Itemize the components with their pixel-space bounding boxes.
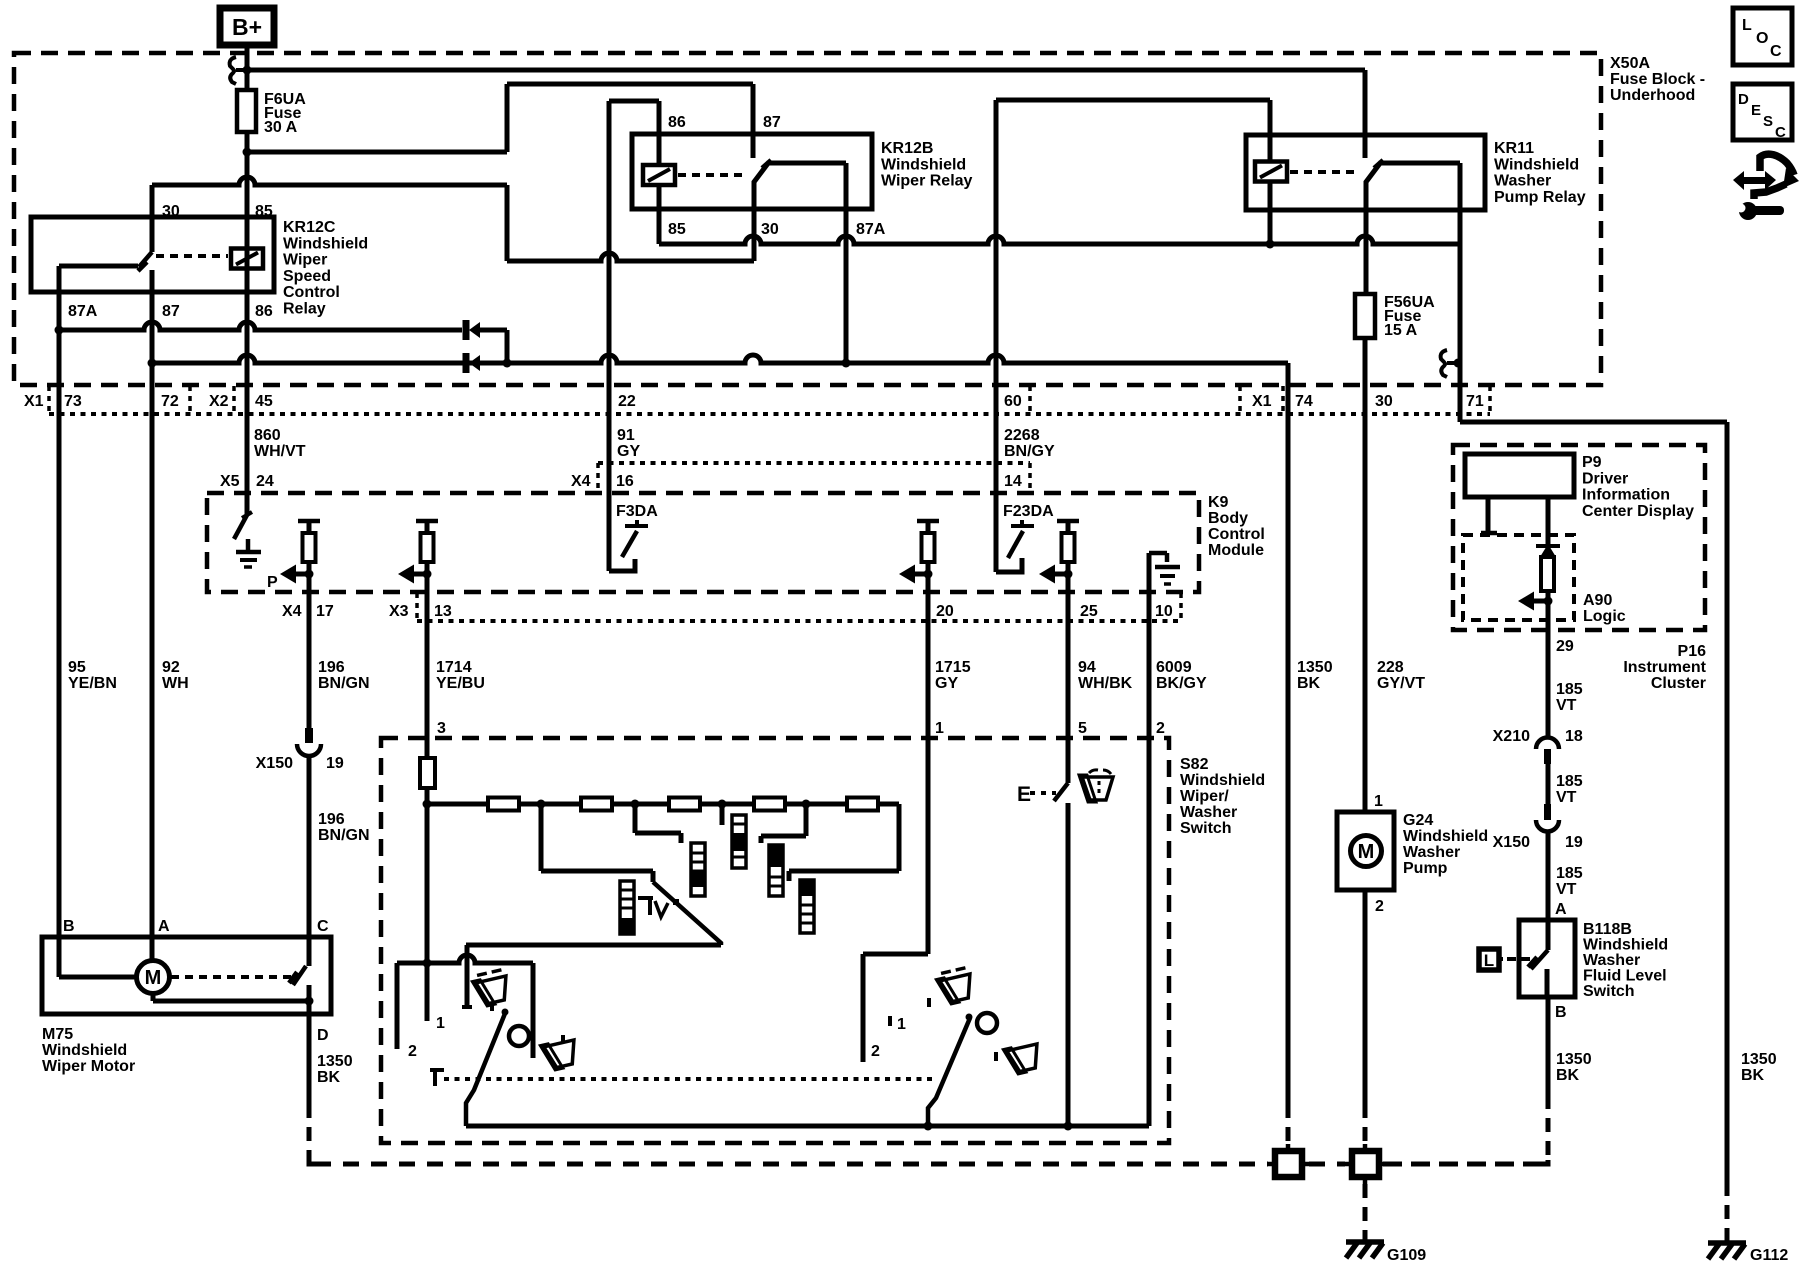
svg-text:F3DA: F3DA [616, 503, 658, 520]
svg-text:13: 13 [434, 603, 452, 620]
svg-text:BN/GN: BN/GN [318, 827, 370, 844]
svg-text:19: 19 [1565, 834, 1583, 851]
svg-text:M: M [1358, 841, 1375, 863]
svg-text:1: 1 [1374, 793, 1383, 810]
svg-text:60: 60 [1004, 393, 1022, 410]
svg-text:O: O [1756, 30, 1768, 47]
svg-text:10: 10 [1155, 603, 1173, 620]
svg-text:B118B: B118B [1583, 921, 1632, 938]
svg-text:94: 94 [1078, 659, 1096, 676]
svg-text:196: 196 [318, 811, 345, 828]
svg-text:87: 87 [162, 303, 180, 320]
svg-text:1: 1 [897, 1016, 906, 1033]
svg-text:2268: 2268 [1004, 427, 1040, 444]
svg-text:VT: VT [1556, 697, 1577, 714]
svg-text:25: 25 [1080, 603, 1098, 620]
svg-text:Windshield: Windshield [1583, 937, 1668, 954]
svg-text:1714: 1714 [436, 659, 472, 676]
svg-text:Windshield: Windshield [1494, 156, 1579, 173]
svg-text:30: 30 [1375, 393, 1393, 410]
svg-text:C: C [1770, 43, 1782, 60]
svg-text:Fuse Block -: Fuse Block - [1610, 71, 1705, 88]
svg-text:A: A [158, 918, 170, 935]
svg-text:BK/GY: BK/GY [1156, 675, 1207, 692]
svg-text:G109: G109 [1387, 1247, 1426, 1264]
svg-text:14: 14 [1004, 473, 1022, 490]
svg-text:Control: Control [1208, 526, 1265, 543]
svg-text:Pump Relay: Pump Relay [1494, 189, 1586, 206]
svg-text:Washer: Washer [1180, 804, 1237, 821]
svg-text:X50A: X50A [1610, 55, 1650, 72]
svg-text:1350: 1350 [1556, 1051, 1592, 1068]
svg-text:Cluster: Cluster [1651, 675, 1706, 692]
svg-text:1350: 1350 [1741, 1051, 1777, 1068]
svg-text:72: 72 [161, 393, 179, 410]
svg-text:F23DA: F23DA [1003, 503, 1054, 520]
svg-text:C: C [1775, 124, 1786, 141]
svg-text:M: M [145, 967, 162, 989]
svg-text:VT: VT [1556, 881, 1577, 898]
svg-text:5: 5 [1078, 720, 1087, 737]
svg-text:G112: G112 [1750, 1247, 1788, 1264]
svg-text:185: 185 [1556, 681, 1583, 698]
svg-text:D: D [317, 1027, 329, 1044]
svg-text:KR11: KR11 [1494, 140, 1534, 157]
svg-text:K9: K9 [1208, 494, 1229, 511]
svg-text:30: 30 [761, 221, 779, 238]
svg-text:Windshield: Windshield [1403, 828, 1488, 845]
svg-text:D: D [1738, 91, 1749, 108]
svg-text:16: 16 [616, 473, 634, 490]
svg-text:Relay: Relay [283, 301, 326, 318]
svg-text:20: 20 [936, 603, 954, 620]
svg-text:860: 860 [254, 427, 281, 444]
svg-text:71: 71 [1466, 393, 1484, 410]
svg-text:185: 185 [1556, 865, 1583, 882]
svg-text:1: 1 [436, 1015, 445, 1032]
svg-text:X150: X150 [1493, 834, 1530, 851]
svg-text:G24: G24 [1403, 812, 1433, 829]
svg-text:GY/VT: GY/VT [1377, 675, 1425, 692]
svg-text:BK: BK [1556, 1067, 1580, 1084]
svg-text:P: P [267, 574, 278, 591]
svg-text:2: 2 [871, 1043, 880, 1060]
svg-text:Logic: Logic [1583, 608, 1626, 625]
svg-text:85: 85 [255, 203, 273, 220]
svg-text:228: 228 [1377, 659, 1404, 676]
svg-text:Washer: Washer [1494, 173, 1551, 190]
svg-text:Driver: Driver [1582, 470, 1628, 487]
svg-text:29: 29 [1556, 638, 1574, 655]
svg-text:Speed: Speed [283, 268, 331, 285]
svg-text:30 A: 30 A [264, 119, 298, 136]
svg-text:2: 2 [1375, 898, 1384, 915]
svg-text:GY: GY [935, 675, 958, 692]
svg-text:X4: X4 [282, 603, 302, 620]
svg-text:X3: X3 [389, 603, 409, 620]
svg-text:BK: BK [317, 1069, 341, 1086]
svg-text:Pump: Pump [1403, 860, 1448, 877]
svg-text:22: 22 [618, 393, 636, 410]
svg-text:95: 95 [68, 659, 86, 676]
svg-text:BN/GY: BN/GY [1004, 443, 1055, 460]
svg-text:87A: 87A [68, 303, 98, 320]
svg-text:15 A: 15 A [1384, 322, 1418, 339]
svg-text:19: 19 [326, 755, 344, 772]
svg-text:Instrument: Instrument [1623, 659, 1706, 676]
svg-text:X1: X1 [24, 393, 44, 410]
svg-text:Switch: Switch [1583, 983, 1635, 1000]
svg-text:91: 91 [617, 427, 635, 444]
svg-text:18: 18 [1565, 728, 1583, 745]
svg-text:YE/BU: YE/BU [436, 675, 485, 692]
svg-text:GY: GY [617, 443, 640, 460]
svg-text:BN/GN: BN/GN [318, 675, 370, 692]
svg-text:L: L [1484, 951, 1494, 970]
svg-text:BK: BK [1297, 675, 1321, 692]
svg-text:17: 17 [316, 603, 334, 620]
svg-text:B: B [1555, 1004, 1567, 1021]
svg-text:86: 86 [255, 303, 273, 320]
svg-text:E: E [1017, 783, 1031, 806]
svg-text:C: C [317, 918, 329, 935]
svg-text:KR12B: KR12B [881, 140, 933, 157]
svg-text:Body: Body [1208, 510, 1248, 527]
svg-text:185: 185 [1556, 773, 1583, 790]
svg-text:KR12C: KR12C [283, 219, 336, 236]
svg-text:A: A [1555, 901, 1567, 918]
svg-text:1350: 1350 [1297, 659, 1333, 676]
svg-text:P9: P9 [1582, 454, 1602, 471]
svg-text:B+: B+ [232, 14, 262, 40]
svg-text:6009: 6009 [1156, 659, 1192, 676]
svg-text:L: L [1742, 17, 1752, 34]
svg-text:Center Display: Center Display [1582, 503, 1694, 520]
svg-text:X1: X1 [1252, 393, 1272, 410]
svg-text:WH: WH [162, 675, 189, 692]
svg-text:1715: 1715 [935, 659, 971, 676]
svg-text:45: 45 [255, 393, 273, 410]
svg-text:M75: M75 [42, 1026, 73, 1043]
svg-text:Wiper: Wiper [283, 252, 327, 269]
svg-text:B: B [63, 918, 75, 935]
svg-text:Underhood: Underhood [1610, 87, 1695, 104]
svg-text:85: 85 [668, 221, 686, 238]
svg-text:Wiper Relay: Wiper Relay [881, 173, 973, 190]
svg-text:WH/BK: WH/BK [1078, 675, 1133, 692]
svg-text:BK: BK [1741, 1067, 1765, 1084]
svg-text:2: 2 [408, 1043, 417, 1060]
svg-text:3: 3 [437, 720, 446, 737]
svg-text:Windshield: Windshield [881, 156, 966, 173]
svg-text:S82: S82 [1180, 756, 1209, 773]
svg-text:WH/VT: WH/VT [254, 443, 306, 460]
svg-text:X210: X210 [1493, 728, 1530, 745]
svg-text:Module: Module [1208, 542, 1264, 559]
svg-text:Fluid Level: Fluid Level [1583, 968, 1667, 985]
svg-text:P16: P16 [1678, 643, 1707, 660]
svg-text:E: E [1751, 102, 1761, 119]
svg-text:30: 30 [162, 203, 180, 220]
svg-text:X4: X4 [571, 473, 591, 490]
svg-text:X5: X5 [220, 473, 240, 490]
svg-text:Wiper/: Wiper/ [1180, 788, 1229, 805]
svg-text:Windshield: Windshield [42, 1042, 127, 1059]
svg-text:Washer: Washer [1583, 952, 1640, 969]
svg-text:A90: A90 [1583, 592, 1612, 609]
svg-text:Information: Information [1582, 487, 1670, 504]
svg-text:86: 86 [668, 114, 686, 131]
svg-text:92: 92 [162, 659, 180, 676]
svg-text:YE/BN: YE/BN [68, 675, 117, 692]
svg-text:196: 196 [318, 659, 345, 676]
svg-text:87A: 87A [856, 221, 886, 238]
svg-text:74: 74 [1295, 393, 1313, 410]
svg-text:Wiper Motor: Wiper Motor [42, 1058, 135, 1075]
svg-text:Washer: Washer [1403, 844, 1460, 861]
svg-text:1: 1 [935, 720, 944, 737]
svg-text:87: 87 [763, 114, 781, 131]
svg-text:1350: 1350 [317, 1053, 353, 1070]
svg-text:73: 73 [64, 393, 82, 410]
svg-text:VT: VT [1556, 789, 1577, 806]
svg-text:X150: X150 [256, 755, 293, 772]
svg-text:24: 24 [256, 473, 274, 490]
svg-text:Switch: Switch [1180, 820, 1232, 837]
svg-text:Control: Control [283, 284, 340, 301]
svg-text:Windshield: Windshield [1180, 772, 1265, 789]
svg-text:S: S [1763, 113, 1773, 130]
svg-text:X2: X2 [209, 393, 229, 410]
svg-text:2: 2 [1156, 720, 1165, 737]
svg-text:Windshield: Windshield [283, 235, 368, 252]
